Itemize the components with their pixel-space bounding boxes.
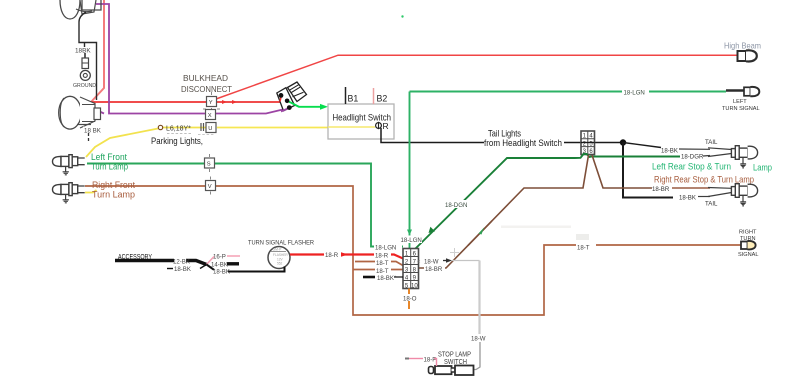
tail lamp right rear icon — [708, 184, 758, 206]
connector V bulkhead — [206, 177, 216, 195]
svg-text:16-P: 16-P — [213, 254, 226, 261]
svg-text:18-R: 18-R — [325, 252, 339, 259]
10-pin connector C1 — [403, 249, 419, 290]
svg-text:18-P: 18-P — [424, 357, 437, 364]
svg-text:18-BK: 18-BK — [174, 266, 191, 273]
connector X bulkhead — [203, 109, 220, 120]
label 18BK ground wire — [75, 48, 91, 55]
ground G1 screw to body — [73, 53, 96, 89]
tail lamp left rear icon — [708, 146, 758, 168]
wire brown right rear lamp leg — [592, 155, 710, 188]
svg-text:Left Front: Left Front — [91, 152, 127, 162]
wire red high beam from bulkhead Y to high-beam lamp — [216, 55, 737, 99]
svg-text:18-R: 18-R — [375, 253, 389, 260]
wire thick black 14-BK — [211, 262, 239, 269]
svg-text:LEFT: LEFT — [733, 99, 747, 105]
scan artifact green dot — [401, 15, 403, 17]
connector S bulkhead — [205, 154, 215, 172]
label 18-DGR at left rear lamp — [680, 152, 710, 161]
connector Y bulkhead — [207, 92, 217, 111]
svg-text:FLASHER: FLASHER — [273, 253, 288, 257]
text TURN SIGNAL FLASHER — [248, 240, 314, 247]
wire black stub 18-BK* pin4 — [363, 275, 403, 282]
left turn signal lamp — [722, 87, 760, 112]
dimmer switch connector — [277, 82, 307, 112]
label 18-R at pin2 — [374, 251, 391, 260]
svg-text:X: X — [208, 113, 212, 119]
svg-text:18-LGN: 18-LGN — [624, 90, 645, 97]
wire brown right front turn lamp to pins and right turn signal — [85, 186, 741, 315]
svg-text:12-BK: 12-BK — [173, 259, 190, 266]
svg-text:14-BK: 14-BK — [211, 262, 228, 269]
wire light green vertical 18-LGN to pin 1 — [407, 92, 412, 249]
svg-text:18-W: 18-W — [471, 336, 486, 343]
svg-text:«: « — [417, 258, 421, 265]
svg-text:18-BK: 18-BK — [213, 269, 230, 276]
svg-text:GM-P: GM-P — [273, 248, 283, 252]
label 18-BR at pin8 — [424, 265, 445, 274]
wire thick black accessory feed — [115, 252, 207, 266]
text Left Front Turn Lamp — [91, 152, 128, 172]
svg-text:Y: Y — [209, 100, 213, 106]
svg-text:Lamp: Lamp — [753, 163, 772, 173]
svg-text:552: 552 — [277, 262, 283, 266]
text TAIL left rear — [705, 139, 718, 146]
svg-text:18-T: 18-T — [376, 260, 389, 267]
text TAIL right rear — [705, 201, 718, 208]
svg-text:18BK: 18BK — [75, 48, 91, 55]
terminal B2 stub — [374, 88, 388, 104]
text Tail Lights from Headlight Switch — [484, 129, 562, 150]
6-pin tail light connector — [581, 131, 595, 155]
terminal B1 stub — [346, 87, 359, 104]
wire yellow stub right front lamp — [85, 190, 97, 193]
wire light green to left turn signal lamp — [410, 91, 727, 93]
label 18-T at pin4 — [375, 267, 391, 276]
svg-text:L6,18Y*: L6,18Y* — [166, 126, 191, 133]
wire black vertical to right rear lamp — [623, 143, 710, 202]
text Left Rear Stop & Turn Lamp — [652, 162, 772, 173]
wire yellow parking lights — [86, 128, 328, 158]
svg-text:Parking Lights,: Parking Lights, — [151, 136, 203, 147]
turn lamp LF icon — [53, 155, 85, 175]
svg-text:S: S — [207, 162, 211, 168]
label 18-T at pin3 — [375, 259, 391, 268]
svg-text:DISCONNECT: DISCONNECT — [181, 84, 233, 94]
svg-text:Left Rear Stop & Turn: Left Rear Stop & Turn — [652, 162, 731, 172]
high beam lamp — [724, 42, 761, 62]
svg-text:TURN SIGNAL: TURN SIGNAL — [722, 106, 760, 112]
svg-text:18-DGN: 18-DGN — [445, 202, 467, 209]
svg-text:Turn Lamp: Turn Lamp — [92, 190, 135, 200]
wire pink 18-P stop lamp — [405, 357, 437, 367]
svg-text:GROUND: GROUND — [73, 83, 96, 89]
stop lamp switch — [429, 350, 474, 376]
label 18-R mid — [324, 251, 341, 260]
wire pink 16-P from splice — [207, 254, 241, 265]
svg-text:18-LGN: 18-LGN — [401, 237, 422, 244]
wire bright green dimmer to headlight switch with arrow — [288, 101, 329, 110]
label 18-T near right turn signal — [576, 243, 596, 252]
svg-text:18-BR: 18-BR — [425, 266, 443, 273]
headlamp LH lower — [59, 96, 101, 129]
wire red feed vertical from top to left headlamps — [91, 0, 104, 102]
svg-text:18-BR: 18-BR — [652, 186, 670, 193]
headlight switch box — [328, 104, 394, 139]
svg-text:18-BK: 18-BK — [661, 148, 678, 155]
turn lamp RF icon — [53, 183, 85, 203]
wire black through connector row2 — [581, 142, 595, 144]
label 18-DGN — [443, 200, 471, 209]
svg-text:18-BK*: 18-BK* — [377, 275, 397, 282]
svg-text:ACCESSORY: ACCESSORY — [118, 252, 152, 261]
svg-text:from Headlight Switch: from Headlight Switch — [484, 138, 562, 149]
label 18-LGN vertical wire — [400, 236, 422, 245]
svg-text:High Beam: High Beam — [724, 42, 761, 51]
svg-text:18-W: 18-W — [424, 259, 439, 266]
svg-text:Turn Lamp: Turn Lamp — [91, 162, 128, 172]
wire black 18-BK to flasher ground — [207, 265, 285, 276]
turn signal flasher can — [268, 247, 290, 269]
headlamp LH outer (top, partially cut) — [60, 0, 101, 19]
terminal R of headlight switch — [376, 121, 389, 131]
svg-text:TAIL: TAIL — [705, 201, 718, 208]
label 18-BR right rear — [652, 186, 670, 193]
text Right Front Turn Lamp — [92, 180, 135, 200]
wire black to left rear lamp 18-BK — [623, 143, 710, 155]
svg-text:BULKHEAD: BULKHEAD — [183, 73, 228, 83]
svg-text:TURN SIGNAL FLASHER: TURN SIGNAL FLASHER — [248, 240, 314, 247]
text Right Rear Stop & Turn Lamp — [654, 175, 754, 185]
svg-text:Right Front: Right Front — [92, 180, 135, 190]
svg-text:18-T: 18-T — [376, 268, 389, 275]
svg-text:18-LGN: 18-LGN — [375, 245, 396, 252]
wire light green left front turn lamp to connector pin1 — [87, 164, 403, 247]
wire dark green 18-DGN tail lights — [414, 154, 680, 250]
svg-text:V: V — [208, 184, 212, 190]
wire purple headlamp feed vertical and to dimmer — [93, 4, 289, 114]
right turn signal lamp — [738, 230, 759, 259]
svg-text:18-DGR: 18-DGR — [681, 154, 704, 161]
wire black tail light feed from R terminal — [381, 128, 623, 143]
svg-text:RIGHT: RIGHT — [739, 230, 757, 236]
svg-text:18-T: 18-T — [577, 245, 590, 252]
text BULKHEAD DISCONNECT — [181, 73, 233, 94]
junction dot tail feed — [620, 139, 626, 145]
label 18-LGN left turn — [622, 88, 649, 97]
connector U bulkhead — [201, 123, 216, 133]
svg-text:18-O: 18-O — [403, 296, 417, 303]
wire black 18-BK stub left — [167, 265, 207, 274]
svg-text:U: U — [208, 126, 212, 132]
svg-text:TAIL: TAIL — [705, 139, 718, 146]
wire orange 18-O from pin5 — [403, 289, 417, 310]
svg-text:18-BK: 18-BK — [679, 195, 696, 202]
wire red flasher to pin 2 — [290, 252, 403, 258]
wire black headlamp ground branch — [79, 12, 97, 100]
svg-text:B1: B1 — [348, 94, 359, 104]
svg-text:SIGNAL: SIGNAL — [738, 252, 759, 258]
svg-text:18 BK: 18 BK — [84, 128, 102, 135]
wire red low-beam feed headlamp to dimmer switch — [91, 97, 281, 105]
wire brown rear harness pin8 to connector — [419, 155, 589, 268]
label 18-LGN at pin1 — [374, 243, 402, 252]
wire brown crossing over gray — [450, 221, 589, 257]
label 18 BK below lower headlamp — [83, 127, 102, 142]
svg-text:B2: B2 — [377, 94, 388, 104]
svg-text:R: R — [383, 121, 389, 131]
node L6,18Y* circle — [158, 125, 214, 134]
svg-text:10: 10 — [411, 283, 418, 289]
wire gray 18-W from pin7 to stop lamp switch — [417, 258, 486, 370]
text Parking Lights, — [151, 136, 203, 147]
